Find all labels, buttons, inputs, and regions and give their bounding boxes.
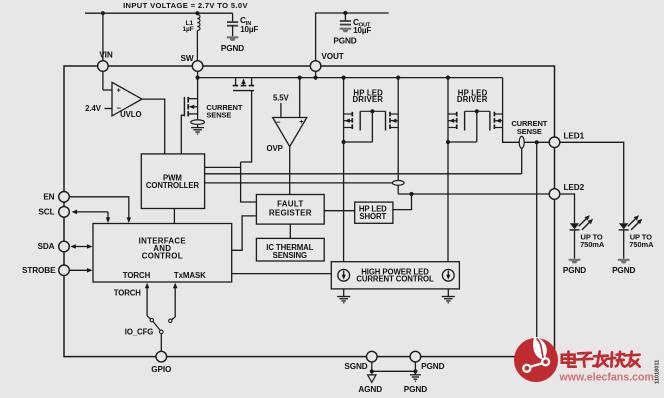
svg-text:EN: EN	[43, 193, 54, 202]
svg-text:TORCH: TORCH	[114, 288, 142, 297]
svg-text:SW: SW	[181, 54, 194, 63]
svg-text:SENSE: SENSE	[206, 110, 231, 119]
svg-text:TORCH: TORCH	[123, 271, 151, 280]
svg-text:SGND: SGND	[344, 362, 367, 371]
svg-text:5.5V: 5.5V	[273, 94, 290, 103]
svg-text:www.elecfans.com: www.elecfans.com	[559, 372, 654, 384]
svg-text:LED1: LED1	[564, 131, 585, 140]
svg-text:+: +	[299, 119, 303, 126]
svg-text:DRIVER: DRIVER	[352, 95, 383, 104]
svg-text:750mA: 750mA	[629, 240, 654, 249]
svg-text:GPIO: GPIO	[151, 365, 172, 374]
svg-text:DRIVER: DRIVER	[457, 95, 488, 104]
svg-text:10µF: 10µF	[353, 26, 371, 35]
svg-text:PGND: PGND	[612, 266, 635, 275]
svg-text:11018011: 11018011	[655, 360, 661, 384]
svg-text:INPUT VOLTAGE = 2.7V TO 5.0V: INPUT VOLTAGE = 2.7V TO 5.0V	[123, 1, 248, 10]
svg-text:CURRENT CONTROL: CURRENT CONTROL	[356, 274, 434, 283]
svg-text:PGND: PGND	[421, 362, 444, 371]
svg-text:FAULT: FAULT	[277, 200, 303, 209]
svg-text:UVLO: UVLO	[120, 110, 141, 119]
svg-text:SHORT: SHORT	[359, 212, 386, 221]
svg-text:LED2: LED2	[564, 183, 585, 192]
svg-text:SCL: SCL	[38, 208, 54, 217]
svg-text:PGND: PGND	[333, 36, 356, 45]
svg-text:750mA: 750mA	[580, 240, 605, 249]
svg-text:CONTROLLER: CONTROLLER	[146, 181, 200, 190]
svg-text:PGND: PGND	[221, 44, 244, 53]
svg-text:OVP: OVP	[267, 144, 283, 153]
svg-text:–: –	[276, 118, 281, 127]
svg-text:CONTROL: CONTROL	[142, 252, 183, 261]
svg-text:VIN: VIN	[99, 50, 113, 59]
svg-text:1µF: 1µF	[182, 26, 193, 33]
svg-text:+: +	[117, 87, 121, 94]
svg-text:PGND: PGND	[404, 385, 427, 394]
svg-text:VOUT: VOUT	[321, 52, 343, 61]
svg-text:SENSING: SENSING	[273, 251, 307, 260]
svg-text:PGND: PGND	[563, 266, 586, 275]
svg-text:STROBE: STROBE	[22, 266, 56, 275]
svg-text:IO_CFG: IO_CFG	[125, 327, 153, 336]
svg-text:TxMASK: TxMASK	[174, 271, 206, 280]
svg-text:AGND: AGND	[358, 385, 382, 394]
svg-text:SDA: SDA	[38, 242, 55, 251]
svg-text:2.4V: 2.4V	[85, 104, 102, 113]
svg-text:REGISTER: REGISTER	[269, 208, 312, 217]
svg-text:10µF: 10µF	[240, 25, 258, 34]
svg-text:SENSE: SENSE	[517, 127, 542, 136]
